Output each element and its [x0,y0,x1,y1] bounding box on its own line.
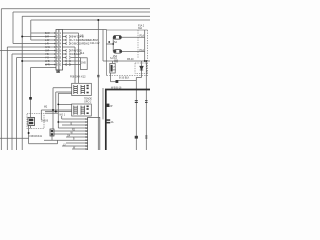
wire row1 right to coil feed [63,32,79,34]
wire fuse1 output [121,36,144,38]
inline connector tick on x98 wire [97,75,100,77]
wire vertical x103 [102,30,104,62]
ignition coil box 1 [72,83,92,95]
wire coil box2 input 2 [41,109,71,111]
wire row5 [7,46,56,48]
relay component body [28,118,35,126]
wire vertical x58.3 [57,93,59,128]
wire vertical B [12,12,14,44]
thick wire connector mark [106,104,109,107]
junction dot row9 [21,60,23,62]
wire usm output down [110,73,112,82]
inline connector on x136 wire upper [135,101,138,103]
svg-text:2P: 2P [110,105,113,108]
relay connector tick [29,97,32,100]
wire diode branch [141,61,143,78]
wire row7 [12,53,56,55]
wire vertical relay feed [30,68,32,116]
wire row1 [31,32,56,34]
wire ecu row y149 [72,148,88,150]
wire coil box1 input 1 [53,87,72,89]
wire vertical x53 [52,88,53,141]
wire vertical x144.7 [144,30,146,61]
USM component box [110,63,115,73]
svg-text:1M5·B: 1M5·B [41,120,48,123]
wire bus line D [31,19,150,21]
wire diode bottom across [136,77,141,79]
wire vertical A left edge [0,9,2,150]
wire label ticks on ecu rows [63,123,76,149]
junction dot x53 [52,109,54,111]
wire row3 right [63,39,67,41]
svg-text:C24-4 W: C24-4 W [90,42,100,45]
wire ecu row 3 [62,124,88,126]
junction dot fusebox left edge [108,41,110,43]
fuse feed bus [106,37,113,51]
svg-text:W-R: W-R [45,64,50,67]
wire color labels left of connector [45,32,50,67]
inline connector oval row2 [66,35,70,65]
inline connector oval row4 [66,42,70,44]
svg-text:P1A: P1A [140,49,145,52]
svg-text:M-1: M-1 [80,51,85,55]
coil box1 terminal marks [87,85,89,93]
wire vertical x55.8 [55,92,57,112]
inline connector oval row6 [66,49,70,51]
fuse 1 capsule [113,36,121,40]
wire fuse2 output [122,51,145,53]
fuse box dashed right and bottom edges [106,30,147,76]
wire row2 right [63,36,67,38]
wire bus line C [22,15,150,17]
svg-text:1M5: 1M5 [81,62,86,65]
wire row3 [31,39,56,41]
wire ecu row 6 [54,133,88,135]
connector row entry ticks [53,32,55,65]
wire vertical box2 to ecu row [61,116,63,119]
wire ecu row y146 [62,145,88,147]
inline connector on x146 wire upper [145,101,148,103]
wire vertical jog [57,140,59,144]
coil 2B element [81,106,85,115]
wire b16 line [118,80,136,82]
wire coil box1 input 3 [58,92,71,94]
wire vertical x98 from line D [97,20,99,150]
wire vertical C long [21,16,23,150]
svg-text:W-B B-16: W-B B-16 [111,86,122,89]
inline connector ticks on y61 line [115,60,117,63]
inline connector on x146 wire lower [145,136,147,138]
inline connector on x136 wire lower [135,136,138,139]
ignition coil box 2 [72,104,92,116]
svg-text:F08·DKK·K12: F08·DKK·K12 [70,75,86,78]
diode symbol [140,66,143,70]
inline connector oval row10 [66,63,70,65]
junction dot x58.3 [57,104,59,106]
coil 1B element [81,85,85,94]
wire destination labels right of ovals [72,34,99,56]
wire vertical x146.3 down [145,61,147,150]
fuse box outer boundary [106,30,147,76]
wire bus line A top [1,8,150,10]
connector block C24 main body [56,30,63,71]
svg-text:G-B·C-10·RD·K2: G-B·C-10·RD·K2 [72,42,90,46]
svg-text:15A: 15A [113,41,118,44]
relay coil mark [29,119,33,121]
wire ecu row 2 [58,121,87,123]
coil 2A element [74,106,78,115]
wire usm output right [111,81,116,83]
wire usm feed [112,61,114,63]
ECU pin number column [85,118,88,151]
svg-text:B-16 BLK: B-16 BLK [119,77,130,80]
wire row10 stub [45,64,56,66]
diode dashed enclosure [135,63,147,74]
relay wire through [30,115,32,129]
svg-text:NG 1: NG 1 [60,114,66,117]
wire coil box2 input 3 [45,111,72,113]
fuse 2 capsule [114,50,122,54]
USM label [113,66,117,71]
wire ecu row y143 [66,142,88,144]
wire row5 right to coil feed2 [63,46,76,48]
wire row8 [17,57,56,59]
wire row6 off left edge [0,50,56,52]
wire vertical row8 drop [16,58,18,151]
coil 1A element [74,85,78,94]
wire row9 from C junction [22,60,56,62]
svg-text:GPO 2: GPO 2 [84,100,92,103]
ECU box bottom right [88,117,100,151]
relay assembly dashed box bottom left [27,114,44,129]
wire relay output vertical [28,126,30,144]
fuse box inner dashed divider [137,30,139,58]
wire ecu row 7 [66,136,88,138]
wire vertical row7 drop [11,54,13,150]
wire ecu row 1 [62,118,88,120]
inline component dark marks [51,130,53,132]
small filter box right of connector [81,58,88,70]
junction dot x58.3 y122 [57,121,59,123]
svg-text:FB-40: FB-40 [127,58,134,61]
USM inner marks [111,65,113,72]
connector block bottom tab [57,70,60,73]
wire vertical x103 lower segment [102,88,104,119]
junction dot relay drop [28,132,30,134]
junction dot y61 x144 [144,60,146,62]
wire row9 right to small box [63,60,81,62]
connector bracket on thick wire [106,119,110,123]
wire row8 right [63,57,67,59]
wire ecu row y140 [44,139,88,141]
inline connector oval row7 [66,53,70,55]
label between coil boxes [84,98,92,104]
wire ground line left [0,137,29,139]
coil box2 terminal marks [87,106,89,115]
junction dot x55.8 [55,111,57,113]
wire ecu row 4 [58,127,87,129]
svg-text:P1A: P1A [140,35,145,38]
wire vertical x136.3 down [135,78,137,151]
inline connector oval row8 [66,56,70,58]
svg-text:F08·DKK41: F08·DKK41 [30,135,43,138]
wire row10 right to small box [63,64,81,66]
inline connector oval row9 [66,60,70,62]
wire vertical coil feed2 [74,47,76,83]
junction dot y61 x146 [145,60,147,62]
wire bottom feed row [31,67,57,69]
wire vertical D [30,20,32,40]
wire row2 [22,36,56,38]
wire row6 right [63,50,67,52]
wire stub left [45,112,58,114]
svg-text:2A: 2A [111,121,114,124]
wire bus y61 right [103,60,150,62]
wire coil box1 input 2 [56,91,72,93]
svg-text:30A: 30A [138,27,143,30]
usm output connector block [116,80,119,83]
inline component on x53 wire [50,129,54,136]
wire vertical label drop [40,110,42,120]
wire row4 from B to connector [13,43,56,45]
wire bus line B [13,11,150,13]
wire ecu row 5 [54,130,88,132]
junction dot line D x98 [97,19,99,21]
fuse feed junction dot [112,43,114,45]
svg-text:S-15-0: S-15-0 [110,58,118,60]
wire relay output to ecu [29,143,58,145]
connector pin numbers column [57,31,62,67]
wire row4 right [63,43,67,45]
inline connector oval row3 [66,39,70,41]
label above fusebox right [138,25,145,31]
wire coil box2 input 1 [58,103,71,105]
wire connector top to fusebox [63,29,107,31]
wire row7 right [63,53,67,55]
wire vertical row5 drop [6,47,8,150]
wire vertical coil feed1 [78,33,80,83]
thick harness wire corner [106,90,150,151]
wire row8 to small box [71,57,81,59]
junction dot row2 [21,36,23,38]
